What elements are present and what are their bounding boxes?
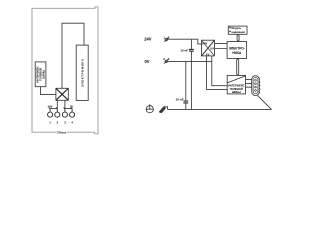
svg-text:Модуль: Модуль xyxy=(232,27,242,30)
electronics box right xyxy=(227,42,247,59)
dc/dc converter left figure xyxy=(56,88,68,100)
earth symbol xyxy=(146,104,153,113)
terminal clamp 3 xyxy=(62,107,67,117)
wire dcdc to terminal 3 xyxy=(64,100,66,108)
wire dcdc 5V to interface xyxy=(206,56,227,90)
jumper terminals 1-2 xyxy=(50,108,57,110)
rail wire xyxy=(168,108,272,110)
terminal clamp 1 xyxy=(48,107,53,117)
wire 0V xyxy=(167,60,211,62)
svg-text:24V: 24V xyxy=(202,42,207,46)
svg-text:ШИНЫ: ШИНЫ xyxy=(232,90,241,94)
svg-text:750xxx: 750xxx xyxy=(57,130,66,134)
svg-text:10 nF: 10 nF xyxy=(176,97,184,101)
supply terminal 3/4 xyxy=(163,57,169,63)
arrow leds-electronics xyxy=(237,35,239,42)
wire dcdc 0V input and to interface xyxy=(212,56,227,86)
internal bus wire pi shape xyxy=(62,23,84,88)
svg-text:4: 4 xyxy=(71,120,73,124)
LED legend box xyxy=(228,26,247,34)
wires dcdc to electronics xyxy=(215,44,228,49)
DIN rail symbol xyxy=(159,107,167,113)
wire 24V xyxy=(168,39,202,44)
svg-text:ЭЛЕКТРОНИКА: ЭЛЕКТРОНИКА xyxy=(81,58,85,87)
svg-text:ЭЛЕКТРО-: ЭЛЕКТРО- xyxy=(229,46,245,50)
fieldbus interface box left xyxy=(35,62,46,87)
module outline xyxy=(32,7,98,134)
capacitor C2 10nF xyxy=(176,61,189,109)
dc/dc converter right xyxy=(202,40,215,56)
connector shield wire xyxy=(258,95,272,109)
svg-text:24V: 24V xyxy=(48,104,53,108)
svg-text:2: 2 xyxy=(56,120,58,124)
electronics right label xyxy=(229,46,245,54)
capacitor C1 10nF xyxy=(180,39,194,109)
svg-text:индикация: индикация xyxy=(232,31,246,34)
terminal numbers xyxy=(49,120,73,124)
fieldbus interface box right xyxy=(227,75,245,94)
svg-text:24V: 24V xyxy=(144,37,152,42)
wire interface to dcdc left xyxy=(41,87,56,95)
wire dcdc to terminal 2 xyxy=(56,100,58,108)
svg-text:0V: 0V xyxy=(70,104,73,108)
jumper terminals 3-4 xyxy=(65,108,72,110)
svg-text:ШИНЫ: ШИНЫ xyxy=(41,69,45,78)
svg-text:0V: 0V xyxy=(144,59,149,64)
svg-text:5V: 5V xyxy=(210,47,214,51)
terminal clamp 4 xyxy=(70,107,75,117)
fieldbus interface left label xyxy=(35,66,45,83)
terminal clamp 2 xyxy=(55,107,60,117)
svg-text:3: 3 xyxy=(64,120,66,124)
svg-text:1: 1 xyxy=(49,120,51,124)
svg-text:5V: 5V xyxy=(206,52,210,56)
svg-text:10 nF: 10 nF xyxy=(180,48,188,52)
fieldbus connector xyxy=(246,76,261,96)
svg-text:4: 4 xyxy=(168,57,170,61)
supply terminal 1/2 xyxy=(163,35,169,41)
electronics box left xyxy=(76,45,88,100)
svg-text:НИКА: НИКА xyxy=(232,51,242,55)
arrow electronics-interface xyxy=(237,59,239,75)
